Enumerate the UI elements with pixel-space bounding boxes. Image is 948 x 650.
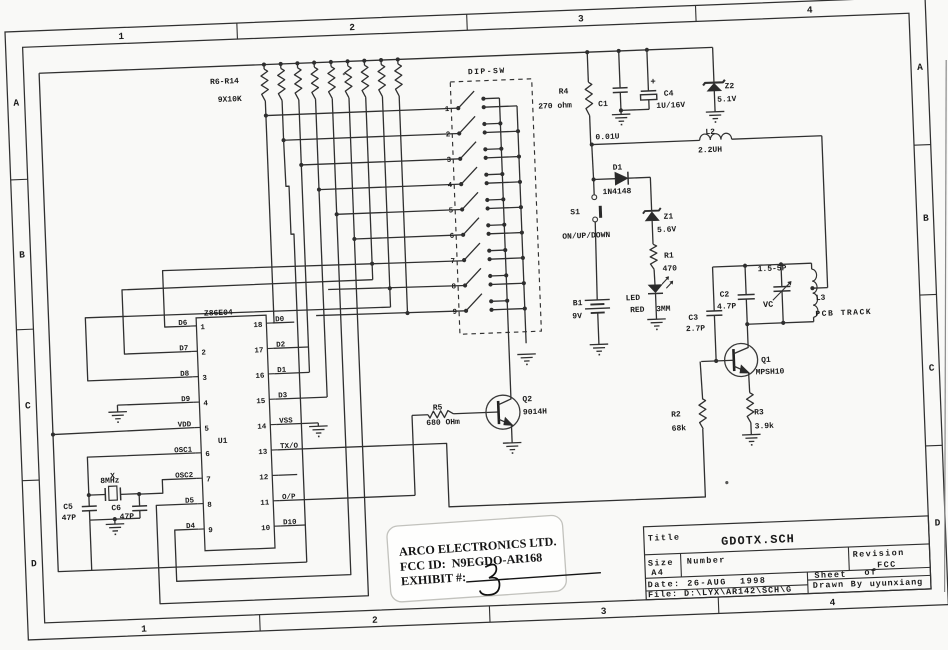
svg-text:9: 9 — [452, 309, 457, 317]
svg-text:2: 2 — [201, 349, 206, 357]
svg-text:1: 1 — [118, 31, 124, 42]
svg-text:9V: 9V — [572, 312, 582, 321]
svg-text:68k: 68k — [672, 424, 687, 434]
svg-text:12: 12 — [259, 474, 269, 482]
svg-text:2: 2 — [349, 22, 355, 33]
svg-text:D: D — [934, 517, 940, 528]
svg-text:6: 6 — [450, 233, 455, 241]
svg-text:D7: D7 — [179, 345, 188, 353]
svg-text:D6: D6 — [178, 320, 188, 328]
svg-text:2: 2 — [372, 615, 378, 626]
svg-text:R2: R2 — [671, 410, 681, 419]
svg-text:GDOTX.SCH: GDOTX.SCH — [721, 532, 795, 549]
svg-text:3: 3 — [202, 375, 207, 383]
svg-text:D0: D0 — [275, 316, 285, 324]
svg-text:1: 1 — [445, 106, 450, 114]
svg-text:+: + — [650, 77, 656, 87]
svg-text:16: 16 — [255, 373, 265, 381]
svg-text:C: C — [929, 363, 935, 374]
svg-text:D1: D1 — [613, 163, 623, 172]
svg-text:C1: C1 — [598, 100, 608, 109]
svg-text:U1: U1 — [218, 437, 228, 446]
svg-text:2.2UH: 2.2UH — [698, 146, 723, 156]
svg-text:L2: L2 — [705, 128, 715, 137]
svg-text:C4: C4 — [664, 89, 674, 98]
svg-text:C: C — [25, 400, 31, 411]
svg-text:C3: C3 — [688, 314, 698, 323]
svg-text:Z86E04: Z86E04 — [204, 308, 233, 318]
svg-text:47P: 47P — [62, 514, 77, 524]
svg-text:ON/UP/DOWN: ON/UP/DOWN — [562, 231, 611, 242]
svg-text:17: 17 — [254, 347, 263, 355]
svg-text:4: 4 — [807, 4, 813, 15]
svg-text:D1: D1 — [277, 367, 287, 375]
svg-text:C2: C2 — [719, 290, 729, 299]
svg-text:D2: D2 — [276, 341, 286, 349]
svg-text:13: 13 — [258, 449, 268, 457]
svg-text:D8: D8 — [180, 370, 190, 378]
svg-text:of: of — [864, 567, 877, 577]
svg-text:8MHz: 8MHz — [100, 476, 120, 486]
svg-text:5.6V: 5.6V — [657, 225, 677, 235]
svg-text:Q1: Q1 — [761, 356, 771, 365]
svg-text:18: 18 — [253, 322, 263, 330]
svg-text:7: 7 — [206, 476, 211, 484]
svg-text:3MM: 3MM — [656, 305, 671, 315]
svg-text:R1: R1 — [664, 251, 674, 260]
svg-text:R4: R4 — [559, 87, 569, 96]
svg-text:680 OHm: 680 OHm — [426, 418, 460, 428]
svg-text:1: 1 — [141, 623, 147, 634]
svg-text:4: 4 — [448, 182, 453, 190]
svg-text:Number: Number — [687, 555, 726, 566]
svg-text:R3: R3 — [754, 408, 764, 417]
svg-text:RED: RED — [630, 306, 645, 316]
svg-text:3.9k: 3.9k — [755, 422, 775, 432]
svg-text:14: 14 — [257, 423, 267, 431]
svg-text:Drawn By: Drawn By — [813, 579, 864, 591]
svg-text:MPSH10: MPSH10 — [755, 367, 784, 377]
svg-text:B: B — [19, 249, 25, 260]
svg-text:3: 3 — [447, 157, 452, 165]
svg-text:5.1V: 5.1V — [717, 95, 737, 105]
svg-text:5: 5 — [449, 207, 454, 215]
svg-text:uyunxiang: uyunxiang — [870, 577, 923, 589]
svg-text:C6: C6 — [111, 504, 121, 513]
svg-text:8: 8 — [451, 283, 456, 291]
svg-text:7: 7 — [450, 258, 455, 266]
svg-text:1N4148: 1N4148 — [602, 187, 631, 197]
svg-text:47P: 47P — [120, 512, 135, 522]
svg-text:B1: B1 — [573, 299, 583, 308]
svg-text:9: 9 — [208, 527, 213, 535]
svg-text:R5: R5 — [433, 403, 443, 412]
svg-text:15: 15 — [256, 398, 266, 406]
svg-text:Title: Title — [648, 532, 681, 543]
svg-text:10: 10 — [261, 525, 271, 533]
svg-text:D3: D3 — [278, 392, 288, 400]
svg-text:6: 6 — [205, 451, 210, 459]
svg-text:A: A — [13, 98, 19, 109]
svg-text:A: A — [917, 62, 923, 73]
svg-text:L3: L3 — [816, 294, 826, 303]
svg-text:11: 11 — [260, 499, 270, 507]
svg-text:270 ohm: 270 ohm — [538, 101, 572, 111]
svg-text:470: 470 — [662, 264, 677, 274]
svg-text:4: 4 — [829, 597, 835, 608]
svg-text:4.7P: 4.7P — [717, 302, 737, 312]
svg-text:0.01U: 0.01U — [595, 132, 620, 142]
svg-text:A4: A4 — [651, 568, 664, 578]
svg-text:4: 4 — [203, 400, 208, 408]
svg-text:S1: S1 — [570, 208, 580, 217]
svg-text:LED: LED — [626, 294, 641, 304]
svg-text:Revision: Revision — [853, 548, 905, 560]
svg-text:5: 5 — [204, 426, 209, 434]
svg-text:B: B — [923, 213, 929, 224]
svg-text:R6-R14: R6-R14 — [210, 77, 239, 87]
svg-text:DIP-SW: DIP-SW — [468, 67, 506, 77]
svg-text:Q2: Q2 — [522, 395, 532, 404]
svg-text:2: 2 — [446, 131, 451, 139]
svg-text:1.5-5P: 1.5-5P — [758, 264, 787, 274]
svg-text:9X10K: 9X10K — [218, 95, 243, 105]
svg-text:2.7P: 2.7P — [686, 324, 706, 334]
svg-text:D10: D10 — [283, 519, 297, 528]
svg-text:FCC: FCC — [877, 560, 897, 571]
svg-text:Z2: Z2 — [724, 82, 734, 91]
svg-text:3: 3 — [578, 13, 584, 24]
svg-text:1U/16V: 1U/16V — [656, 101, 685, 111]
svg-text:9014H: 9014H — [523, 407, 548, 417]
svg-text:D: D — [31, 558, 37, 569]
svg-text:VC: VC — [763, 300, 774, 310]
svg-text:1: 1 — [200, 324, 205, 332]
svg-text:3: 3 — [601, 606, 607, 617]
svg-text:8: 8 — [207, 502, 212, 510]
svg-text:Z1: Z1 — [663, 212, 673, 221]
svg-text:D4: D4 — [186, 523, 196, 531]
svg-text:D5: D5 — [185, 497, 195, 505]
svg-text:C5: C5 — [63, 503, 73, 512]
